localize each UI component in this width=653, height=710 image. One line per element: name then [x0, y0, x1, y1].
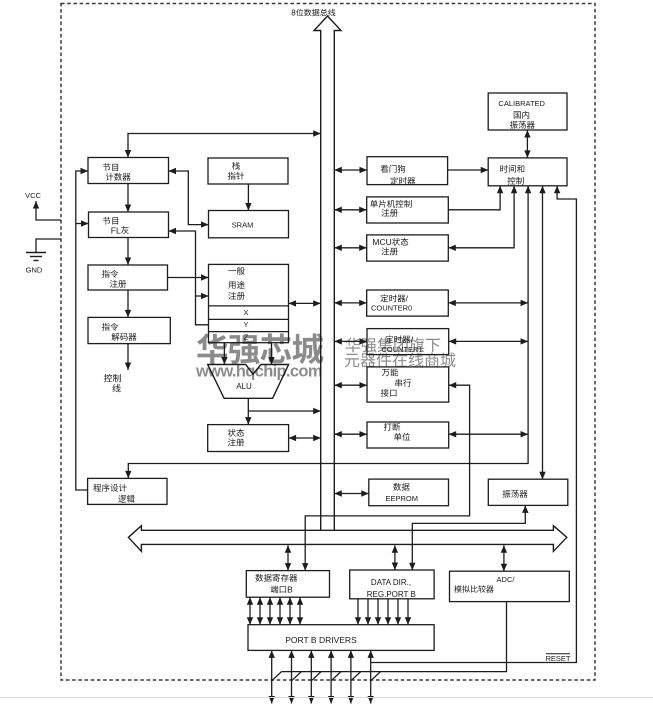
ground symbol	[26, 239, 61, 261]
timer/counter1 box	[367, 329, 449, 355]
wire: data bus to watchdog timer (double arrow)	[334, 167, 367, 173]
svg-text:RESET: RESET	[545, 654, 570, 663]
wire: timing and control to MCU status register	[448, 186, 517, 251]
watermark slogan text	[344, 337, 456, 370]
8-bit data bus vertical shaft with top arrowhead	[314, 16, 341, 530]
wire: data bus to interrupt unit (double arrow)	[334, 431, 367, 437]
MCU control register box	[367, 197, 449, 223]
wire: watchdog timer to timing and control	[448, 167, 489, 173]
svg-text:定时器/: 定时器/	[380, 294, 409, 304]
wire: general purpose registers to data bus (double arrow)	[289, 300, 321, 306]
wire: data bus to data direction register (double arrow)	[392, 545, 398, 570]
wire: instruction register to instruction decoder	[125, 290, 131, 317]
svg-text:栈: 栈	[232, 161, 241, 171]
wire: registers X to ALU	[221, 343, 227, 365]
svg-text:串行: 串行	[394, 378, 412, 388]
svg-text:模拟比较器: 模拟比较器	[454, 585, 494, 594]
watchdog timer box	[367, 157, 448, 186]
svg-text:线: 线	[112, 384, 121, 394]
svg-text:用途: 用途	[228, 280, 246, 290]
svg-text:注册: 注册	[109, 279, 127, 289]
svg-text:控制: 控制	[103, 374, 121, 384]
wire: program counter to data bus (top)	[125, 130, 321, 157]
svg-text:数据寄存器: 数据寄存器	[255, 573, 298, 583]
wire: instruction register to general purpose registers	[168, 274, 209, 280]
status register box	[208, 425, 289, 452]
svg-text:EEPROM: EEPROM	[385, 494, 418, 503]
wire: data bus to ADC (double arrow)	[501, 545, 507, 571]
wire: program counter to program flash	[125, 184, 131, 213]
svg-text:定时器: 定时器	[390, 176, 416, 186]
wires: port B pins (double arrows)	[269, 650, 374, 703]
svg-text:端口B: 端口B	[270, 585, 293, 595]
oscillator box	[488, 479, 568, 505]
universal serial interface box	[367, 367, 449, 402]
wire: ALU to status register and data bus	[245, 398, 321, 424]
interrupt unit box	[367, 422, 449, 448]
svg-text:X: X	[243, 308, 248, 317]
svg-text:REG.PORT B: REG.PORT B	[367, 590, 416, 599]
svg-text:MCU状态: MCU状态	[372, 237, 409, 247]
svg-text:看门狗: 看门狗	[380, 164, 406, 174]
wire: data bus to timer/counter1 (double arrow)	[334, 338, 367, 344]
svg-text:ADC/: ADC/	[497, 575, 516, 584]
svg-text:一般: 一般	[228, 266, 246, 276]
svg-text:数据: 数据	[393, 482, 411, 492]
svg-text:8位数据总线: 8位数据总线	[291, 9, 335, 18]
instruction decoder box	[88, 317, 170, 343]
data direction register port B box	[350, 570, 434, 599]
general purpose registers box with X Y Z rows	[209, 264, 289, 342]
wire: universal serial interface to data register port B	[302, 382, 470, 571]
wire: data bus to universal serial interface (double arrow)	[334, 382, 367, 388]
svg-text:注册: 注册	[381, 247, 399, 257]
watermark hqchip logo text	[195, 324, 324, 381]
svg-text:注册: 注册	[381, 208, 399, 218]
wire: MCU control register to timing and control	[448, 186, 503, 210]
ALU trapezoid	[208, 365, 289, 399]
timing and control box	[488, 158, 567, 186]
svg-text:国内: 国内	[513, 110, 530, 120]
svg-text:控制: 控制	[507, 176, 524, 186]
RESET label with overline	[545, 654, 570, 663]
wire: programming logic feedback to program counter and flash	[76, 168, 89, 490]
data EEPROM box	[369, 479, 449, 506]
svg-text:指令: 指令	[101, 322, 119, 332]
timer/counter0 box	[367, 290, 449, 316]
svg-text:逻辑: 逻辑	[118, 494, 136, 504]
VCC supply arrow	[33, 201, 61, 220]
GND label	[26, 266, 43, 275]
svg-text:GND: GND	[26, 266, 43, 275]
svg-text:指令: 指令	[101, 269, 119, 279]
port B drivers box	[248, 625, 434, 651]
wire: interrupt unit to control line	[449, 431, 528, 437]
svg-text:程序设计: 程序设计	[93, 483, 128, 493]
svg-text:注册: 注册	[227, 438, 245, 448]
program flash box	[89, 212, 169, 238]
svg-text:时间和: 时间和	[500, 164, 526, 174]
8-bit data bus title	[291, 9, 335, 18]
chip boundary (dashed border)	[61, 4, 595, 681]
wire: ADC to port pins with hop marks	[272, 602, 507, 681]
svg-text:解码器: 解码器	[111, 332, 137, 342]
program counter box	[88, 158, 169, 184]
svg-text:www.hqchip.com: www.hqchip.com	[195, 363, 323, 381]
wire: data bus to MCU control register (double arrow)	[334, 207, 366, 213]
bottom page separator line	[0, 697, 653, 699]
wire: data direction register to oscillator	[409, 505, 528, 570]
svg-text:VCC: VCC	[25, 191, 41, 200]
MCU status register box	[367, 235, 449, 261]
wire: data bus to data EEPROM (double arrow)	[334, 490, 369, 496]
horizontal data bus double arrow	[128, 526, 566, 552]
SRAM box	[209, 211, 289, 238]
wire: timer/counter1 to control line	[449, 338, 528, 344]
control lines label	[103, 374, 121, 394]
svg-text:指针: 指针	[227, 171, 245, 181]
wire: stack pointer to SRAM	[245, 184, 251, 211]
wire: data bus to data register port B (double arrow)	[285, 545, 291, 570]
svg-text:节目: 节目	[102, 216, 119, 226]
svg-text:注册: 注册	[228, 291, 246, 301]
wire: calibrated oscillator to timing and control (double arrow)	[524, 130, 530, 158]
svg-text:SRAM: SRAM	[232, 221, 254, 230]
svg-text:PORT B DRIVERS: PORT B DRIVERS	[285, 635, 357, 645]
svg-text:打断: 打断	[383, 422, 401, 432]
stack pointer box	[208, 158, 288, 184]
wire: timing and control to programming logic (long control line)	[125, 186, 531, 479]
wires: data direction register to port B drivers	[355, 599, 411, 625]
svg-text:振荡器: 振荡器	[510, 120, 536, 130]
wire: RESET line from timing and control to port pin	[371, 186, 576, 663]
svg-text:单位: 单位	[393, 432, 411, 442]
VCC label	[25, 191, 41, 200]
wire: program flash to general purpose registers	[169, 228, 209, 325]
calibrated internal oscillator box	[488, 93, 567, 130]
svg-text:状态: 状态	[227, 428, 245, 438]
wire: data bus to timer/counter0 (double arrow)	[334, 300, 366, 306]
wire: instruction decoder to control lines	[125, 344, 131, 370]
svg-text:COUNTER0: COUNTER0	[371, 304, 412, 313]
wire: status register to data bus (double arrow)	[289, 435, 321, 441]
wire: timing and control to oscillator	[539, 186, 545, 479]
programming logic box	[88, 478, 167, 504]
svg-text:接口: 接口	[380, 388, 397, 398]
svg-text:DATA DIR.,: DATA DIR.,	[371, 578, 411, 587]
instruction register box	[88, 265, 168, 290]
ADC / analog comparator box	[450, 571, 570, 601]
wire: registers Z to ALU	[268, 343, 274, 365]
svg-text:元器件在线商城: 元器件在线商城	[344, 352, 456, 370]
svg-text:计数器: 计数器	[105, 172, 131, 182]
wire: program flash to instruction register	[125, 238, 131, 266]
wire: program counter to SRAM	[169, 168, 209, 228]
wire: data bus to MCU status register (double arrow)	[334, 245, 366, 251]
svg-text:FL灰: FL灰	[111, 226, 130, 236]
wire: timer/counter0 to control line	[448, 300, 528, 306]
svg-text:振荡器: 振荡器	[502, 489, 528, 499]
svg-text:节目: 节目	[102, 163, 119, 173]
svg-text:ALU: ALU	[236, 382, 252, 391]
data register port B box	[246, 571, 329, 598]
svg-text:CALIBRATED: CALIBRATED	[498, 99, 545, 108]
wires: data register port B to port B drivers (double arrows)	[247, 597, 303, 625]
